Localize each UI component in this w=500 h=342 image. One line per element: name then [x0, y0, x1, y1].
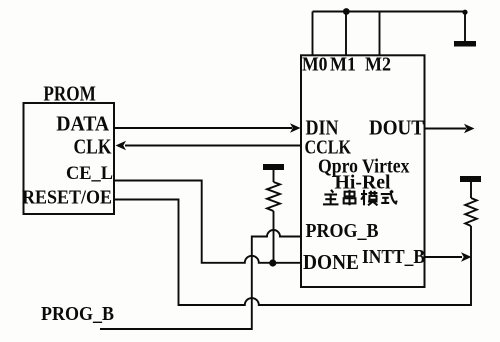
VCC bar above R2	[460, 176, 481, 182]
wire DOUT arrow shaft	[425, 128, 467, 130]
arrowhead CLK into PROM	[116, 141, 127, 151]
char 主	[323, 190, 339, 205]
wire mode bus	[313, 11, 466, 13]
svg-text:PROM: PROM	[43, 82, 96, 106]
VCC bar top right	[454, 41, 476, 47]
svg-text:RESET/OE: RESET/OE	[22, 188, 112, 209]
svg-text:PROG_B: PROG_B	[306, 220, 379, 242]
resistor R1 zigzag	[267, 182, 280, 211]
svg-text:CCLK: CCLK	[305, 137, 352, 159]
char 串	[344, 190, 356, 206]
svg-text:DATA: DATA	[56, 111, 110, 135]
wire CE_L to DONE (with hop over PROG_B wire)	[114, 181, 301, 263]
svg-text:PROG_B: PROG_B	[41, 303, 114, 325]
char 式	[381, 190, 397, 203]
wire M1 stub	[345, 12, 347, 56]
svg-text:CE_L: CE_L	[66, 164, 113, 184]
arrowhead INTT_B	[461, 252, 472, 262]
wire PROG_B net (FPGA pin to bottom label, hop over resistor lead)	[100, 230, 301, 329]
resistor R2 zigzag	[465, 198, 477, 226]
VCC bar above R1	[263, 164, 284, 170]
wire M2 stub	[379, 12, 381, 56]
arrowhead DATA into DIN	[290, 123, 301, 133]
wire DATA	[115, 127, 293, 129]
wire CLK	[125, 145, 301, 147]
junction dot DONE/resistor R1	[269, 259, 276, 266]
svg-text:DOUT: DOUT	[369, 116, 424, 140]
resistor R1 lead bottom	[273, 211, 275, 263]
wire RESET/OE to INTT_B node (hop over PROG_B wire)	[114, 200, 471, 306]
FPGA box U2 Qpro Virtex	[301, 55, 425, 287]
junction dot M1 on bus	[343, 8, 350, 15]
label 主串模式 (master serial mode)	[323, 190, 397, 206]
svg-text:Hi-Rel: Hi-Rel	[335, 173, 392, 194]
svg-text:M1: M1	[330, 54, 356, 76]
wire bus to VCC bar	[464, 12, 466, 42]
resistor R1 lead top	[273, 170, 275, 182]
wire INTT_B arrow shaft	[425, 256, 463, 258]
svg-text:M0: M0	[302, 54, 328, 76]
junction dot bus corner	[462, 10, 467, 15]
arrowhead DOUT	[464, 124, 475, 134]
wire M0 stub	[312, 12, 314, 56]
PROM box	[24, 103, 115, 214]
svg-text:DONE: DONE	[303, 250, 359, 274]
resistor R2 lead top	[470, 182, 472, 198]
svg-text:CLK: CLK	[74, 134, 112, 158]
svg-text:INTT_B: INTT_B	[362, 246, 425, 268]
char 模	[361, 190, 377, 206]
svg-text:M2: M2	[365, 54, 391, 76]
